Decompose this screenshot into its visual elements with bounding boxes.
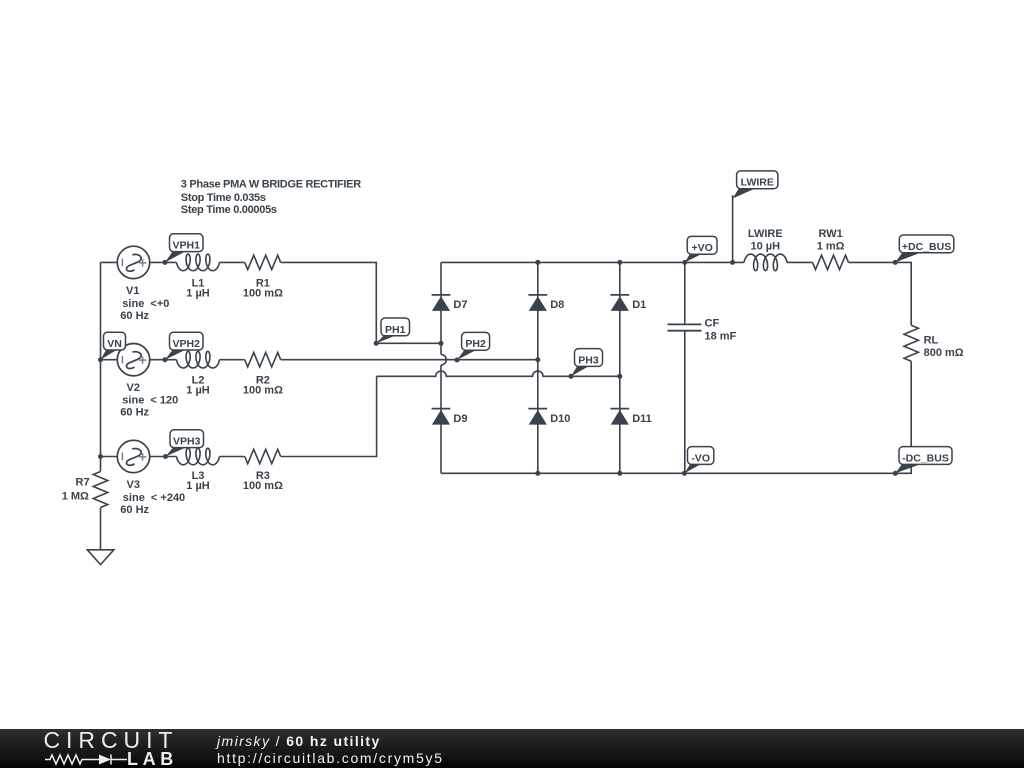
svg-text:PH3: PH3	[578, 354, 599, 366]
wire V3 left lead	[101, 456, 118, 458]
svg-text:PH1: PH1	[385, 324, 406, 336]
svg-text:D11: D11	[632, 413, 652, 425]
svg-text:D7: D7	[453, 299, 467, 311]
wire V2 left lead	[101, 359, 118, 361]
inductor L1	[177, 254, 220, 271]
wire RW1 to right corner and down	[849, 262, 912, 325]
svg-text:18 mF: 18 mF	[705, 330, 737, 342]
wire V2 to L2	[150, 359, 177, 361]
label V1	[120, 285, 169, 322]
resistor RL	[904, 325, 918, 361]
svg-text:10 µH: 10 µH	[751, 240, 781, 252]
svg-text:D1: D1	[632, 299, 646, 311]
svg-text:V1: V1	[126, 285, 139, 297]
svg-text:PH2: PH2	[465, 338, 486, 350]
inductor L3	[177, 448, 220, 465]
node PH1 attach	[374, 341, 379, 346]
node PH3 attach	[569, 374, 574, 379]
wire D7 branch top	[440, 262, 442, 354]
wire R7 bottom to ground	[100, 508, 102, 550]
voltage source V3	[117, 440, 149, 472]
diode D8	[528, 295, 547, 311]
svg-text:+VO: +VO	[691, 242, 712, 254]
node flag -VO	[684, 447, 713, 474]
node +VO junction	[682, 260, 687, 265]
label R2	[243, 374, 283, 396]
svg-text:1 µH: 1 µH	[186, 288, 210, 300]
node -VO junction	[682, 471, 687, 476]
junction top rail D8	[535, 260, 540, 265]
junction top rail D1	[617, 260, 622, 265]
label R7	[62, 477, 90, 503]
svg-text:sine < +240: sine < +240	[123, 492, 185, 504]
CircuitLab logo text CIRCUIT	[44, 727, 179, 754]
resistor R1	[245, 255, 281, 269]
svg-text:VPH3: VPH3	[173, 436, 201, 448]
svg-text:1 MΩ: 1 MΩ	[62, 491, 89, 503]
wire CF branch top	[684, 262, 686, 324]
resistor R7	[93, 472, 107, 508]
svg-text:100 mΩ: 100 mΩ	[243, 480, 283, 492]
voltage source V2	[117, 344, 149, 376]
svg-text:+DC_BUS: +DC_BUS	[902, 241, 951, 253]
label V3	[120, 479, 185, 516]
resistor RW1	[813, 255, 849, 269]
wire D7 branch hop over phase2 row	[441, 354, 446, 365]
wire L3 to R3	[220, 456, 245, 458]
wire CF branch bottom	[684, 331, 686, 474]
svg-text:sine <+0: sine <+0	[122, 298, 169, 310]
svg-text:LWIRE: LWIRE	[741, 177, 774, 189]
node VPH2 attach	[163, 357, 168, 362]
junction PH3-D1	[617, 374, 622, 379]
title text block	[181, 179, 361, 217]
svg-text:Stop Time 0.035s: Stop Time 0.035s	[181, 192, 266, 204]
wire R2 to D8 branch	[281, 359, 538, 361]
svg-text:R7: R7	[76, 477, 90, 489]
wire D8 D10 branch	[537, 262, 539, 473]
label LWIRE	[748, 228, 783, 253]
wire V3 to L3	[150, 456, 177, 458]
CircuitLab logo resistor-diode glyph	[42, 751, 132, 767]
capacitor CF	[668, 324, 702, 330]
svg-text:100 mΩ: 100 mΩ	[243, 385, 283, 397]
node VN junction	[98, 357, 103, 362]
svg-text:LWIRE: LWIRE	[748, 228, 783, 240]
junction PH2-D8	[535, 357, 540, 362]
node +DC_BUS attach	[893, 260, 898, 265]
diode D9	[432, 409, 451, 425]
svg-text:VPH2: VPH2	[173, 338, 201, 350]
wire R3 to corner and up to PH3 row	[281, 376, 377, 456]
label V2	[120, 382, 178, 419]
wire D9 branch	[440, 365, 442, 473]
node V3 junction	[98, 454, 103, 459]
wire D1 D11 branch	[619, 262, 621, 473]
wire L2 to R2	[220, 359, 245, 361]
resistor R3	[245, 449, 281, 463]
svg-text:RL: RL	[924, 335, 939, 347]
svg-text:-VO: -VO	[691, 452, 710, 464]
svg-text:-DC_BUS: -DC_BUS	[902, 452, 949, 464]
node flag VPH3	[166, 430, 204, 457]
node flag LWIRE	[733, 171, 778, 199]
svg-text:60 Hz: 60 Hz	[120, 504, 149, 516]
svg-text:3 Phase PMA W BRIDGE RECTIFIER: 3 Phase PMA W BRIDGE RECTIFIER	[181, 179, 361, 191]
wire top rail	[441, 261, 744, 263]
node flag VN	[101, 332, 126, 360]
voltage source V1	[117, 246, 149, 278]
label L2	[186, 374, 210, 396]
ground	[87, 550, 114, 565]
node flag PH1	[376, 318, 409, 343]
svg-text:D9: D9	[453, 413, 467, 425]
wire PH3 row with hops over D7 and D8 branches	[377, 371, 620, 376]
node VPH1 attach	[163, 260, 168, 265]
label L3	[186, 470, 210, 492]
svg-text:D10: D10	[550, 413, 570, 425]
wire RL bottom to bottom rail corner	[441, 361, 911, 473]
wire left bus vertical	[100, 262, 102, 471]
label RL	[924, 335, 964, 359]
node flag PH2	[457, 332, 490, 360]
node flag PH3	[571, 349, 603, 377]
label R1	[243, 278, 283, 300]
diode D1	[610, 295, 629, 311]
diode D10	[528, 409, 547, 425]
svg-text:60 Hz: 60 Hz	[120, 310, 149, 322]
svg-text:1 µH: 1 µH	[186, 385, 210, 397]
svg-text:1 µH: 1 µH	[186, 480, 210, 492]
svg-text:100 mΩ: 100 mΩ	[243, 288, 283, 300]
junction bottom rail D11	[617, 471, 622, 476]
label RW1	[817, 228, 845, 253]
svg-text:V2: V2	[127, 382, 140, 394]
wire L1 to R1	[220, 261, 245, 263]
inductor L2	[177, 351, 220, 368]
node VPH3 attach	[163, 454, 168, 459]
svg-text:V3: V3	[127, 479, 140, 491]
wire PH1 row to D7 branch	[376, 342, 441, 344]
svg-text:Step Time 0.00005s: Step Time 0.00005s	[181, 204, 277, 216]
footer title line	[217, 733, 381, 749]
svg-text:VPH1: VPH1	[173, 240, 201, 252]
wire R1 to corner and down to PH1 row	[281, 262, 377, 343]
wire LWIRE flag stub	[732, 195, 734, 262]
svg-text:D8: D8	[550, 299, 564, 311]
svg-text:VN: VN	[107, 338, 122, 350]
wire V1 to L1	[150, 261, 177, 263]
junction PH1-D7	[439, 341, 444, 346]
label L1	[186, 278, 210, 300]
label R3	[243, 470, 283, 492]
wire V1 left lead	[101, 261, 118, 263]
node flag -DC_BUS	[895, 447, 952, 474]
svg-text:CF: CF	[705, 317, 720, 329]
diode D7	[432, 295, 451, 311]
node -DC_BUS attach	[893, 471, 898, 476]
wire LWIRE to RW1	[787, 261, 812, 263]
svg-text:RW1: RW1	[818, 228, 842, 240]
node flag +DC_BUS	[895, 235, 954, 262]
svg-text:sine < 120: sine < 120	[122, 395, 178, 407]
node flag +VO	[685, 236, 717, 262]
junction bottom rail D10	[535, 471, 540, 476]
diode D11	[610, 409, 629, 425]
node PH2 attach	[455, 358, 460, 363]
node LWIRE stub junction	[730, 260, 735, 265]
svg-text:1 mΩ: 1 mΩ	[817, 240, 845, 252]
node flag VPH2	[165, 332, 203, 360]
svg-text:60 Hz: 60 Hz	[120, 407, 149, 419]
resistor R2	[245, 353, 281, 367]
inductor LWIRE	[744, 254, 787, 271]
label CF	[705, 317, 737, 342]
footer url line	[217, 750, 444, 766]
node flag VPH1	[165, 234, 203, 263]
CircuitLab logo text LAB	[127, 749, 178, 770]
svg-text:800 mΩ: 800 mΩ	[924, 347, 964, 359]
